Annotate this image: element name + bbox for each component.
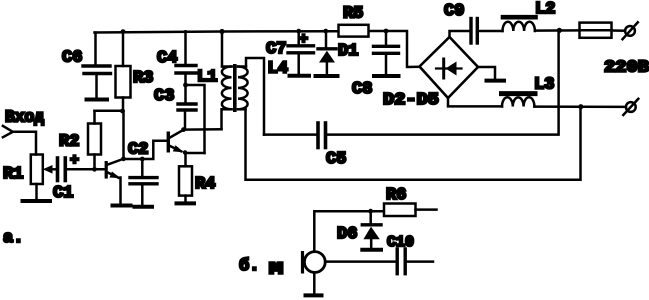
node R3/R2/collector [120,109,125,114]
svg-text:R6: R6 [386,186,406,205]
bridge internal diode [436,59,462,78]
svg-text:C9: C9 [444,2,464,21]
ground at bridge right [487,79,505,83]
capacitor C3 [178,104,196,129]
wire emitter to feedback [186,152,205,155]
ground under D6 [362,248,381,252]
wire C5 right [328,30,559,134]
wire bridge top to C9 [450,31,470,37]
ground under R1 [23,199,51,203]
potentiometer R1 [31,155,43,200]
ground under C6 [87,98,108,102]
wire L2 to fuse [535,29,580,32]
svg-text:C5: C5 [326,150,346,169]
svg-text:C4: C4 [157,49,177,68]
node Q2 emitter [183,150,187,154]
svg-text:220В: 220В [604,59,649,78]
node R3 top [121,29,126,34]
capacitor C8 [374,31,399,74]
wire mic right to C10 [325,260,395,263]
svg-text:R4: R4 [195,175,215,194]
node C2 [140,157,145,162]
diode D1 [318,31,336,74]
fuse F1 [580,23,626,38]
ground under C7 [290,74,310,78]
node D6 top [368,209,373,214]
node lower output [578,104,583,109]
inductor L3 core [502,91,536,96]
inductor L2 core [503,15,536,20]
svg-text:D1: D1 [338,42,358,61]
ground under D1 [316,74,338,78]
wire bridge bottom to L3 [448,98,502,106]
terminal upper [623,22,638,39]
R1 wiper arrow [43,165,57,174]
wire secondary top to C5 line [246,58,264,135]
svg-text:C3: C3 [154,87,174,106]
svg-text:C1: C1 [53,184,73,203]
ground under mic [306,293,322,297]
diode D6 [362,211,381,247]
resistor R4 [179,166,192,202]
wire C4C3 node to emitter [186,85,205,153]
svg-text:R3: R3 [133,69,153,88]
ground under C2 [135,205,153,209]
resistor R5 [339,25,369,37]
capacitor C6 [83,33,111,98]
svg-text:D6: D6 [337,225,357,244]
svg-text:а.: а. [3,229,23,248]
svg-text:C2: C2 [128,141,148,160]
transformer secondary winding L4 [238,67,248,110]
capacitor C10 [397,249,433,274]
svg-text:C6: C6 [62,49,82,68]
capacitor C5 [318,123,326,148]
wire mic to ground [313,272,316,293]
svg-text:+: + [70,152,79,169]
inductor L3 [502,97,534,106]
wire R2 top jog [95,110,123,113]
capacitor C4 [176,31,196,102]
capacitor C9 [471,19,503,44]
wire secondary bottom feedback [246,107,581,180]
svg-text:C8: C8 [352,80,372,99]
svg-text:L3: L3 [534,76,554,95]
node D1 top [323,29,328,34]
terminal lower [623,99,638,115]
node Q1 collector [121,156,126,161]
svg-text:Вход: Вход [5,109,44,128]
svg-text:R2: R2 [59,133,79,152]
resistor R6 [384,204,437,217]
wire C2 node to Q2 base [142,141,166,159]
node base Q1 [92,167,97,172]
wire collector R3 [122,111,125,159]
transformer core [233,64,237,112]
wire bridge right to ground [478,67,495,78]
ground under C8 [374,74,399,78]
capacitor C1 [58,158,105,181]
svg-text:R1: R1 [3,165,23,184]
diode bridge D2-D5 [420,37,479,98]
node C8 top [384,29,389,34]
svg-text:М: М [269,261,283,280]
svg-text:C10: C10 [387,234,414,251]
node C7 top [296,29,301,34]
resistor R2 [88,111,101,170]
inductor L2 [502,22,534,31]
svg-text:D2-D5: D2-D5 [383,91,439,110]
resistor R3 [116,32,131,111]
wire top supply rail [95,31,420,67]
transistor Q1 [105,159,124,204]
wire collector to C2 [124,158,143,161]
svg-text:+: + [299,31,308,48]
svg-text:L2: L2 [535,0,555,19]
node C4/C3 [183,83,188,88]
svg-text:L1: L1 [197,68,217,87]
wire L3 to terminal [534,105,626,108]
microphone M [301,251,325,274]
transformer T1 primary winding L1 [222,32,232,130]
node Q2 collector [181,127,186,132]
svg-text:б.: б. [239,257,259,276]
input jack [3,126,36,155]
capacitor C7 [288,31,314,73]
svg-text:R5: R5 [343,5,363,24]
ground under R4 [177,201,195,205]
svg-text:L4: L4 [268,60,288,79]
transistor Q2 [167,130,186,167]
capacitor C2 [130,159,157,205]
node transformer primary top [219,29,224,34]
ground under Q1 emitter [113,204,131,208]
wire mic top to R6 [314,211,384,251]
wire C5 left [264,133,316,136]
wire Q2 collector to transformer [184,128,222,131]
svg-text:C7: C7 [266,40,286,59]
node upper output [557,28,562,33]
